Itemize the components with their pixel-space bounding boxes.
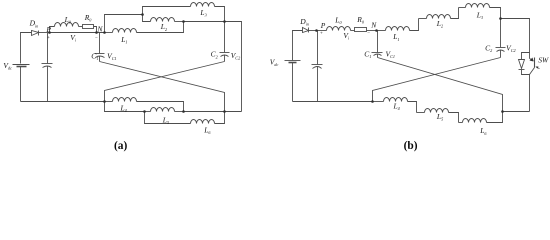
capacitor C1 (a) [95,33,105,62]
inductor L1 (b) [377,19,419,31]
resistor R0 (a) [83,25,97,33]
wire: diagonal from C1 to bottom-right (b) [378,58,503,112]
wire: diagonal from C2 to bottom-left (b) [373,58,501,102]
inductor L6 (a) [145,112,225,124]
inductor L6 (b) [459,112,503,123]
inductor L2 (b) [419,8,459,19]
battery Vdc (a) [13,65,30,102]
wire: bottom row to SW branch (b) [503,111,530,113]
node P (a) [48,31,51,34]
node N left junction (a) [95,31,98,34]
capacitor C2 (a) [220,22,230,62]
node N right junction (a) [103,31,106,34]
svg-text:+: + [320,31,323,36]
battery Vdc (b) [285,61,301,102]
wire: bottom row joining segment (a) [184,111,242,113]
svg-text:P: P [45,25,51,34]
diode Din (b) [303,28,317,33]
svg-text:N: N [97,24,104,33]
wire: bottom rail (b) [293,101,373,103]
capacitor: input electrolytic (b) [312,31,323,102]
capacitor: input electrolytic (a) [42,33,53,102]
node BL junction (b) [371,100,374,103]
inductor L0 (a) [50,23,83,33]
inductor L2 (a) [143,15,184,22]
wire: top rail from battery to diode (a) [21,33,32,64]
svg-text:−: − [95,36,98,41]
node M junction (a) [182,20,185,23]
svg-text:−: − [367,31,370,36]
wire: N to L1 lead (a) [105,32,113,34]
wire: bottom rail (a) [21,101,105,103]
resistor R0 (b) [355,28,377,32]
inductor L0 (b) [327,27,355,31]
inductor L5 (b) [417,109,459,123]
node bottom-right junction (b) [501,110,504,113]
junction dots (a) [48,13,226,113]
svg-text:+: + [47,36,50,41]
capacitor C1 (b) [372,31,383,58]
node top-right junction (b) [499,17,502,20]
svg-text:SW: SW [538,55,549,64]
node N (b) [375,29,378,32]
node L5-L6 junction (a) [143,110,146,113]
wire: riser from N to upper branches (a) [105,15,143,33]
svg-text:N: N [370,20,377,29]
diode: freewheeling beside SW (b) [519,53,530,75]
diode Din (a) [32,31,50,36]
node bottom-right junction (a) [223,110,226,113]
inductor L5 (a) [145,108,184,112]
junction dots (b) [315,17,504,113]
wire: node T to right branch top corner (a) [225,22,242,112]
wire: node to SW branch top (b) [501,19,530,59]
arrowhead: SW collector (b) [530,58,534,62]
wire: drop from BL to lower branches (a) [105,102,145,112]
inductor L3 (b) [459,4,501,19]
inductor L4 (a) [105,98,184,112]
wire: P to N segment (a) [50,32,105,34]
wire: top-left corner to diode (b) [293,31,303,61]
node P (b) [315,29,318,32]
wire: diagonal from C1 to bottom-right (a) [100,62,225,112]
capacitor C2 (b) [496,19,506,58]
node K feeder junction (a) [141,13,144,16]
arrowhead: SW gate arrow (b) [536,67,540,69]
inductor L3 (a) [143,3,225,22]
svg-text:(a): (a) [114,140,127,152]
node T junction (a) [223,20,226,23]
wire: P to L0 lead (b) [317,30,327,32]
svg-text:P: P [320,21,326,30]
node L4-L5 junction (a) [182,110,185,113]
svg-text:(b): (b) [404,140,418,152]
wire: diagonal from C2 to bottom-left (a) [105,62,225,102]
inductor L1 (a) [113,22,184,33]
transistor SW (b) [530,58,535,112]
wire: node M to node T (a) [184,21,225,23]
inductor L4 (b) [373,98,417,113]
node BL junction (a) [103,100,106,103]
